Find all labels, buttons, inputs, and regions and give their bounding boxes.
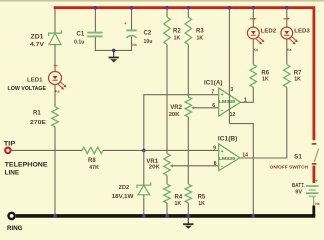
svg-text:4.7V: 4.7V: [30, 42, 45, 48]
svg-text:+: +: [124, 21, 127, 26]
top frame edge: [0, 0, 324, 2]
capacitor C1: [74, 31, 103, 45]
potentiometer VR2: [169, 97, 195, 118]
potentiometer VR1: [146, 154, 173, 176]
node: C2/bus junction: [130, 6, 134, 10]
resistor R8: [82, 147, 103, 171]
svg-text:18V,1W: 18V,1W: [112, 194, 134, 200]
wire: bus to C1: [94, 9, 96, 32]
svg-text:1K: 1K: [174, 35, 181, 41]
wire: bus to LED2: [252, 9, 254, 27]
wire: bus to C2: [131, 9, 133, 31]
svg-text:VR2: VR2: [170, 105, 182, 111]
node: R2/bus junction: [165, 6, 169, 10]
node: C1/C2 ground junction: [112, 49, 116, 53]
wire: TIP to R8: [12, 149, 82, 151]
resistor R5: [185, 184, 206, 207]
zener ZD1: [30, 30, 61, 48]
svg-text:1K: 1K: [262, 77, 269, 83]
resistor R6: [250, 65, 270, 88]
svg-text:20K: 20K: [169, 112, 180, 118]
zener ZD2: [112, 182, 151, 200]
svg-text:+: +: [315, 179, 318, 184]
resistor R3: [185, 17, 204, 44]
wire: R4 to bus: [166, 203, 168, 216]
wire: bus to ZD1: [54, 9, 56, 33]
node: R1/bus junction: [53, 214, 57, 218]
svg-text:C2: C2: [144, 31, 152, 37]
wire: R1 to RING bus: [54, 127, 56, 216]
svg-text:0.1u: 0.1u: [74, 40, 84, 46]
wire: pin 3 supply from bus through IC1(A) to pin 12: [228, 9, 230, 124]
svg-text:IC1(B): IC1(B): [218, 137, 238, 143]
svg-text:12: 12: [230, 112, 236, 118]
wire: node A corner to pin 7: [144, 95, 219, 151]
svg-text:1K: 1K: [175, 201, 182, 207]
terminal TIP: [4, 140, 48, 176]
svg-text:8: 8: [214, 161, 217, 167]
LED LED2: [247, 18, 276, 52]
svg-text:R5: R5: [198, 195, 206, 201]
resistor R1: [30, 107, 58, 127]
svg-text:R3: R3: [196, 28, 204, 34]
wire: LED3 to R7: [286, 39, 288, 64]
svg-text:6: 6: [212, 103, 215, 109]
svg-text:270E: 270E: [30, 120, 47, 126]
op-amp U1 IC1(A): [204, 81, 247, 118]
svg-text:14: 14: [242, 153, 248, 159]
svg-text:9V: 9V: [295, 190, 302, 196]
wire: battery negative to bus: [313, 196, 315, 205]
+V red bus: [54, 8, 314, 141]
node: R5/bus junction: [187, 214, 191, 218]
svg-text:LINE: LINE: [5, 169, 20, 176]
svg-text:LOW VOLTAGE: LOW VOLTAGE: [8, 86, 47, 92]
svg-text:7: 7: [211, 90, 214, 96]
svg-text:TIP: TIP: [4, 140, 16, 147]
svg-text:1K: 1K: [294, 77, 301, 83]
LED LED3: [281, 18, 311, 52]
wire: LED1 to R1: [54, 84, 56, 107]
svg-text:Ka: Ka: [55, 90, 59, 94]
svg-text:R4: R4: [175, 195, 183, 201]
ground symbol (bottom): [183, 218, 193, 229]
wire: VR1 wiper to pin 8: [172, 165, 219, 167]
svg-text:R8: R8: [88, 158, 96, 164]
switch S1: [270, 144, 319, 171]
node: ZD2/bus junction: [142, 214, 146, 218]
svg-text:Na: Na: [315, 202, 319, 206]
wire: bus to R2: [166, 9, 168, 17]
svg-text:Ka: Ka: [254, 48, 258, 52]
wire: R5 to bus: [187, 203, 189, 216]
node: R3/bus junction: [187, 6, 191, 10]
svg-text:TELEPHONE: TELEPHONE: [5, 161, 48, 168]
node: LED2/bus junction: [252, 6, 256, 10]
resistor R4: [164, 184, 183, 207]
terminal RING: [7, 213, 23, 232]
wire: node A to ZD2: [143, 150, 145, 185]
svg-text:ZD2: ZD2: [119, 185, 130, 191]
wire: R6 to pin 1 output: [241, 87, 254, 102]
wire: R8 to pin 9 (telephone line sense): [103, 149, 220, 151]
svg-text:9: 9: [213, 146, 216, 152]
LED LED1: [8, 66, 67, 94]
svg-text:S1: S1: [294, 155, 302, 161]
svg-text:IC1(A): IC1(A): [204, 81, 223, 87]
svg-text:10u: 10u: [144, 39, 153, 45]
node: IC ground/bus junction: [252, 214, 256, 218]
svg-text:R1: R1: [33, 111, 41, 117]
wire: C1 to ground node: [95, 37, 113, 50]
wire: pin 12 to ground bus: [229, 124, 253, 217]
wire: bus to R3: [187, 9, 189, 17]
node A: line sense junction: [142, 149, 146, 153]
svg-text:R6: R6: [261, 70, 269, 76]
wire: ZD2 to bus: [143, 195, 145, 216]
wire: C2 to ground node: [114, 37, 132, 51]
svg-text:20K: 20K: [149, 165, 160, 171]
svg-text:C1: C1: [77, 31, 85, 37]
battery BATT. 9V: [292, 179, 319, 197]
svg-text:LED1: LED1: [27, 77, 43, 83]
svg-text:+: +: [221, 149, 224, 155]
resistor R2: [164, 17, 182, 44]
node: C1/bus junction: [94, 6, 98, 10]
svg-text:LED2: LED2: [261, 28, 277, 34]
svg-text:BATT.: BATT.: [292, 183, 305, 189]
svg-text:47K: 47K: [89, 165, 99, 171]
wire: ZD1 to LED1: [54, 44, 56, 72]
ground/RING black bus: [16, 214, 316, 218]
svg-text:1K: 1K: [198, 201, 205, 207]
wire: R7 to pin 14 output: [240, 87, 287, 158]
node: LED3/bus junction: [285, 6, 289, 10]
svg-text:ZD1: ZD1: [31, 35, 45, 41]
wire: red link switch to battery: [312, 166, 315, 183]
svg-text:+: +: [221, 92, 224, 98]
svg-text:LM339: LM339: [219, 99, 236, 105]
svg-text:1K: 1K: [197, 35, 204, 41]
svg-text:Ka: Ka: [287, 48, 291, 52]
ground symbol (top): [109, 50, 119, 62]
svg-text:RING: RING: [7, 225, 23, 232]
node: R4/bus junction: [165, 214, 169, 218]
resistor R7: [284, 65, 302, 88]
svg-text:3: 3: [230, 87, 233, 93]
svg-text:R2: R2: [173, 28, 181, 34]
wire: R2 to TIP line / VR1: [166, 45, 168, 154]
op-amp U1 IC1(B): [213, 137, 248, 171]
node: pin3/bus junction: [228, 6, 232, 10]
svg-text:Na: Na: [132, 43, 136, 47]
wire: VR2 wiper to pin 6: [194, 107, 219, 109]
svg-text:LED3: LED3: [294, 28, 310, 34]
wire: bus to LED3: [286, 9, 288, 27]
svg-text:−: −: [221, 164, 224, 170]
wire: VR2 to R5: [187, 117, 189, 184]
svg-text:−: −: [221, 108, 224, 114]
capacitor C2: [124, 21, 152, 47]
wire: R3 to VR2: [187, 45, 189, 98]
svg-text:R7: R7: [294, 70, 302, 76]
wire: LED2 to R6: [252, 39, 254, 64]
wire: VR1 to R4: [166, 176, 168, 185]
svg-text:LM339: LM339: [219, 156, 236, 162]
svg-text:ON/OFF SWITCH: ON/OFF SWITCH: [270, 164, 309, 170]
